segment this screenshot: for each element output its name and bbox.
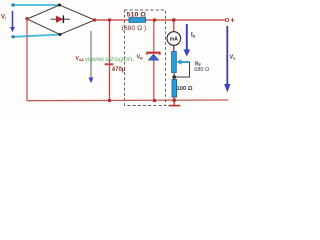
arrow VAA (voltage annotation) — [89, 31, 94, 83]
output terminal plus — [225, 16, 235, 25]
arrow Vo (output voltage annotation) — [224, 26, 230, 93]
wire: wiper return to bottom terminal — [174, 62, 189, 77]
dashed box (regulator section) — [125, 10, 166, 106]
node: bridge right vertex (DC+) — [93, 18, 97, 22]
svg-text:mA: mA — [170, 36, 178, 42]
resistor R 100 ohm — [172, 80, 177, 98]
wire: meter to potentiometer — [173, 45, 175, 51]
node: junction meter top — [172, 18, 176, 22]
milliammeter mA — [167, 32, 181, 46]
svg-text:www.dzsgon.: www.dzsgon. — [85, 57, 135, 63]
wire: bridge negative down (left vertical) — [26, 19, 28, 101]
svg-text:100 Ω: 100 Ω — [177, 86, 193, 92]
svg-text:470µ: 470µ — [112, 67, 126, 73]
arrow Io (output current annotation) — [184, 24, 191, 57]
wire: top rail — [95, 19, 227, 21]
svg-text:(680 Ω ): (680 Ω ) — [122, 26, 147, 32]
potentiometer wiper arrow — [176, 59, 189, 65]
svg-text:680 Ω: 680 Ω — [194, 67, 209, 73]
node: bridge left vertex (DC-) — [25, 17, 29, 21]
AC input wire bottom — [11, 35, 60, 39]
node: junction cap top — [108, 18, 111, 21]
svg-text:Vo: Vo — [230, 55, 237, 61]
node: junction cap bottom — [108, 99, 111, 102]
node: junction R100 bottom rail — [172, 98, 176, 102]
wire: bottom rail — [27, 99, 228, 102]
svg-text:Io: Io — [191, 33, 196, 39]
node: bridge top vertex — [58, 4, 61, 7]
capacitor C1 470u branch wire — [105, 20, 114, 100]
resistor R 510 ohm — [129, 18, 146, 23]
svg-text:VR: VR — [137, 55, 144, 61]
svg-text:+: + — [230, 16, 235, 25]
milliammeter mA branch wire top — [173, 20, 175, 32]
node: bridge bottom vertex — [59, 33, 62, 36]
ground stub bar — [169, 105, 181, 107]
svg-text:VAA: VAA — [76, 56, 85, 62]
zener diode VD branch — [146, 20, 160, 100]
potentiometer RF 680 ohm (body) — [172, 52, 177, 73]
bridge internal diode — [51, 15, 70, 23]
node: junction zener bottom — [153, 99, 157, 103]
wire: R100 bottom lead — [173, 97, 175, 105]
AC input wire top — [11, 3, 59, 6]
svg-text:510 Ω: 510 Ω — [127, 11, 147, 18]
svg-text:Vi: Vi — [1, 15, 6, 21]
node: junction zener top — [153, 18, 156, 21]
bridge rectifier B1 (diamond) — [27, 5, 95, 35]
arrow Vi input voltage — [10, 11, 15, 32]
node: junction pot bottom / R 100 top — [172, 75, 176, 79]
wire: pot bottom lead — [173, 73, 175, 80]
